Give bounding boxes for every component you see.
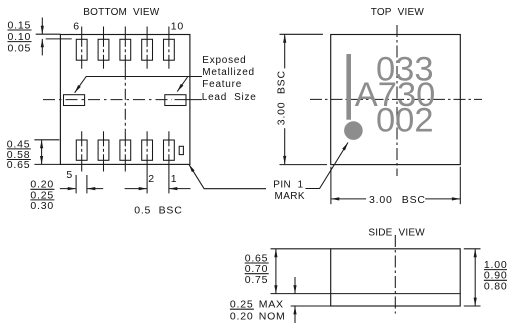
svg-text:6: 6 <box>73 20 80 32</box>
svg-text:3.00: 3.00 <box>369 194 393 206</box>
svg-text:MAX: MAX <box>259 299 284 311</box>
svg-text:BSC: BSC <box>402 194 426 206</box>
svg-text:MARK: MARK <box>275 191 306 202</box>
svg-text:SIDE VIEW: SIDE VIEW <box>368 228 425 239</box>
svg-text:0.80: 0.80 <box>484 281 508 293</box>
svg-text:0.65: 0.65 <box>7 159 31 171</box>
svg-text:0.5 BSC: 0.5 BSC <box>134 205 182 217</box>
svg-text:5: 5 <box>66 169 73 181</box>
svg-text:10: 10 <box>171 20 184 32</box>
svg-text:Exposed: Exposed <box>202 55 246 66</box>
svg-text:002: 002 <box>376 101 434 139</box>
svg-text:TOP VIEW: TOP VIEW <box>371 7 425 18</box>
svg-text:0.20: 0.20 <box>230 311 254 323</box>
svg-text:1: 1 <box>171 173 178 185</box>
svg-text:2: 2 <box>148 173 155 185</box>
svg-text:0.30: 0.30 <box>30 200 54 212</box>
svg-text:NOM: NOM <box>259 311 286 323</box>
svg-text:PIN 1: PIN 1 <box>273 180 303 191</box>
svg-text:3.00 BSC: 3.00 BSC <box>276 70 288 125</box>
svg-text:0.75: 0.75 <box>245 274 269 286</box>
svg-text:0.05: 0.05 <box>8 43 32 55</box>
svg-text:Feature: Feature <box>202 79 242 90</box>
svg-text:BOTTOM VIEW: BOTTOM VIEW <box>83 7 159 18</box>
svg-text:Lead Size: Lead Size <box>202 92 257 103</box>
svg-text:Metallized: Metallized <box>202 67 255 78</box>
